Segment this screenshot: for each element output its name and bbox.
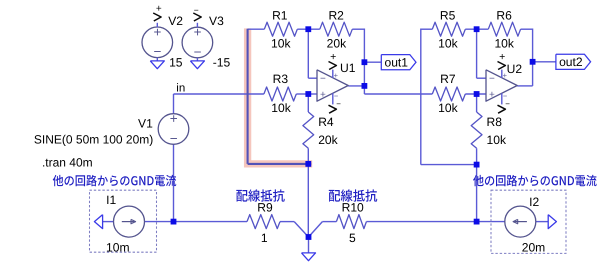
svg-text:R1: R1 [272, 8, 288, 22]
svg-text:10m: 10m [106, 241, 130, 255]
svg-text:−: − [154, 44, 162, 59]
svg-text:1: 1 [261, 231, 268, 245]
svg-text:10k: 10k [438, 36, 458, 50]
svg-text:−: − [489, 74, 495, 85]
svg-text:V3: V3 [209, 14, 224, 28]
svg-text:out2: out2 [559, 55, 583, 69]
svg-text:15: 15 [169, 56, 183, 70]
svg-text:in: in [176, 82, 185, 94]
svg-text:+: + [320, 90, 326, 101]
svg-text:-15: -15 [213, 56, 231, 70]
svg-text:20k: 20k [327, 36, 347, 50]
svg-text:I2: I2 [529, 195, 539, 209]
svg-text:−: − [194, 44, 202, 59]
svg-text:R7: R7 [440, 72, 456, 86]
svg-text:R5: R5 [440, 8, 456, 22]
svg-text:+: + [489, 90, 495, 101]
svg-text:10k: 10k [271, 36, 291, 50]
svg-text:+: + [499, 51, 505, 63]
svg-text:10k: 10k [487, 133, 507, 147]
svg-text:V2: V2 [168, 14, 183, 28]
svg-text:R10: R10 [342, 200, 364, 214]
svg-text:R9: R9 [257, 200, 273, 214]
svg-text:−: − [336, 99, 341, 108]
svg-text:5: 5 [349, 231, 356, 245]
svg-text:U1: U1 [340, 61, 356, 75]
svg-text:10k: 10k [494, 36, 514, 50]
svg-text:out1: out1 [384, 56, 408, 70]
svg-text:+: + [156, 4, 162, 15]
svg-text:V1: V1 [138, 116, 153, 130]
svg-text:20m: 20m [522, 240, 546, 254]
svg-text:R3: R3 [273, 72, 289, 86]
svg-text:−: − [505, 99, 510, 108]
svg-text:+: + [334, 71, 339, 80]
svg-text:−: − [320, 74, 326, 85]
svg-text:.tran 40m: .tran 40m [42, 155, 93, 169]
svg-text:−: − [170, 131, 178, 146]
svg-text:10k: 10k [271, 101, 291, 115]
svg-text:20k: 20k [318, 133, 338, 147]
svg-text:I1: I1 [106, 193, 116, 207]
svg-text:R2: R2 [328, 8, 344, 22]
svg-text:+: + [170, 111, 178, 126]
svg-text:10k: 10k [438, 101, 458, 115]
svg-text:R6: R6 [496, 8, 512, 22]
svg-text:U2: U2 [507, 62, 523, 76]
svg-text:R4: R4 [318, 115, 334, 129]
svg-text:SINE(0 50m 100 20m): SINE(0 50m 100 20m) [34, 133, 153, 147]
svg-text:R8: R8 [487, 115, 503, 129]
svg-text:−: − [194, 5, 199, 15]
svg-text:+: + [330, 51, 336, 63]
